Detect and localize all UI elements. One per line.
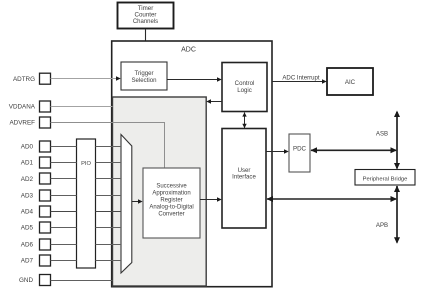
wire User Interface to APB (double arrow)	[267, 196, 398, 202]
svg-text:ADC Interrupt: ADC Interrupt	[282, 74, 320, 81]
svg-text:ADC: ADC	[181, 46, 196, 53]
svg-text:AD0: AD0	[21, 144, 34, 151]
svg-text:APB: APB	[376, 222, 388, 229]
wire SAR converter to User Interface	[200, 197, 222, 202]
svg-text:AD6: AD6	[21, 242, 34, 249]
block PIO	[77, 139, 96, 268]
svg-text:Interface: Interface	[232, 173, 256, 180]
svg-text:GND: GND	[19, 277, 33, 284]
wire AD3	[51, 195, 122, 197]
wire VDDANA to analog cell	[51, 106, 113, 108]
wire AD6	[51, 244, 122, 246]
svg-text:AD4: AD4	[21, 209, 34, 216]
svg-text:AD2: AD2	[21, 176, 34, 183]
wire GND to analog cell	[51, 280, 113, 282]
svg-text:Selection: Selection	[131, 77, 156, 84]
svg-text:AD7: AD7	[21, 258, 34, 265]
svg-text:PIO: PIO	[81, 161, 91, 167]
wire mux to SAR converter	[132, 199, 143, 204]
pin AD6	[21, 239, 51, 250]
block analog cell (shaded)	[113, 97, 207, 286]
pin AD3	[21, 190, 51, 201]
wire ADC Interrupt to AIC	[272, 74, 327, 84]
pin ADVREF	[9, 117, 50, 128]
wire ADTRG to Trigger Selection	[51, 76, 121, 81]
svg-text:Successive: Successive	[156, 184, 187, 190]
pin AD5	[21, 222, 51, 233]
svg-text:Approximation: Approximation	[152, 191, 190, 197]
block AIC	[327, 68, 373, 95]
svg-text:Converter: Converter	[158, 212, 184, 218]
svg-text:Logic: Logic	[237, 87, 252, 94]
block ADC outer box	[112, 41, 272, 287]
block PDC	[289, 134, 310, 172]
wire AD4	[51, 211, 122, 213]
wire Control Logic to User Interface (double arrow)	[242, 112, 246, 128]
wire ADVREF to SAR converter	[51, 123, 165, 168]
block Trigger Selection	[121, 62, 167, 90]
pin AD4	[21, 206, 51, 217]
svg-text:Register: Register	[160, 198, 182, 204]
svg-text:Counter: Counter	[134, 12, 156, 19]
svg-text:AD5: AD5	[21, 225, 34, 232]
pin AD1	[21, 157, 51, 168]
bus ASB vertical (double arrow)	[376, 111, 400, 170]
wire AD0	[51, 146, 122, 148]
pin AD7	[21, 255, 51, 266]
wire PDC to ASB (double arrow)	[311, 147, 398, 153]
block Peripheral Bridge	[355, 170, 415, 186]
pin GND	[19, 275, 51, 286]
svg-text:AD1: AD1	[21, 160, 34, 167]
svg-text:ADVREF: ADVREF	[9, 120, 35, 127]
svg-text:PDC: PDC	[293, 145, 307, 152]
svg-text:Analog-to-Digital: Analog-to-Digital	[149, 205, 193, 211]
svg-text:ADTRG: ADTRG	[13, 76, 35, 83]
wire AD7	[51, 260, 122, 262]
bus APB vertical (double arrow)	[376, 186, 400, 244]
wire Trigger Selection to Control Logic	[167, 77, 222, 82]
wire User Interface to PDC	[266, 149, 289, 154]
wire AD1	[51, 162, 122, 164]
pin VDDANA	[9, 101, 51, 112]
wire Control Logic to analog cell	[206, 99, 222, 104]
svg-text:AIC: AIC	[345, 79, 356, 86]
block analog input mux	[121, 135, 132, 274]
wire AD2	[51, 178, 122, 180]
wire Timer to Trigger Selection	[143, 30, 148, 62]
block Timer Counter Channels	[118, 3, 174, 29]
block Control Logic	[222, 63, 267, 112]
svg-text:ASB: ASB	[376, 131, 388, 138]
wire AD5	[51, 227, 122, 229]
svg-text:Peripheral Bridge: Peripheral Bridge	[363, 176, 408, 182]
svg-text:AD3: AD3	[21, 193, 34, 200]
pin ADTRG	[13, 73, 51, 84]
pin AD0	[21, 141, 51, 152]
block Successive Approximation Register ADC	[143, 168, 200, 238]
block User Interface	[222, 129, 266, 229]
svg-text:Channels: Channels	[133, 19, 158, 25]
svg-text:VDDANA: VDDANA	[9, 104, 36, 111]
pin AD2	[21, 173, 51, 184]
